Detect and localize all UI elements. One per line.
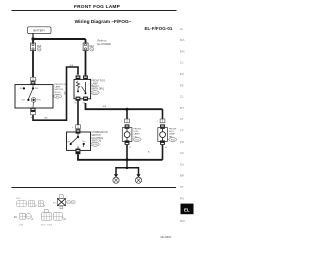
svg-text:COMBINATION: COMBINATION	[92, 131, 108, 134]
wire lamp feed down RH	[162, 109, 164, 119]
svg-text:2: 2	[157, 121, 158, 123]
svg-text:FOG: FOG	[134, 131, 139, 133]
svg-text:E50: E50	[72, 202, 75, 204]
svg-text:E107 , E108: E107 , E108	[41, 225, 53, 227]
svg-text:G/R: G/R	[70, 65, 74, 67]
svg-text:AX: AX	[180, 151, 184, 155]
svg-text:FRONT FOG: FRONT FOG	[54, 84, 67, 86]
legend ground bolt cluster	[53, 195, 75, 209]
svg-text:IDX: IDX	[180, 219, 185, 223]
wire bus drop to fuse F1	[32, 39, 34, 44]
node battery feed junction	[32, 38, 35, 41]
ground E50	[135, 174, 141, 183]
svg-text:LAMP: LAMP	[134, 133, 140, 136]
wire box A to lighting switch	[77, 101, 79, 125]
wire relay out down-right-up to switch feed	[33, 67, 78, 120]
connector under relay	[30, 108, 35, 119]
wire ground bus	[77, 159, 162, 161]
svg-text:E21: E21	[67, 202, 70, 204]
svg-text:G/B: G/B	[103, 106, 107, 108]
wire lamp feed down LH	[126, 109, 128, 119]
battery B1	[28, 27, 52, 34]
wire battery to feed bus	[32, 33, 34, 39]
svg-text:RS: RS	[180, 196, 184, 200]
wire lighting switch to ground bus	[77, 154, 79, 160]
svg-text:EL: EL	[184, 208, 190, 213]
svg-text:LAMP: LAMP	[92, 82, 99, 85]
switch unit box A terminals bottom	[74, 97, 88, 105]
svg-text:14: 14	[76, 74, 78, 76]
svg-text:FE: FE	[180, 83, 184, 87]
svg-text:Refer to: Refer to	[98, 39, 108, 42]
label front fog lamp switch	[91, 81, 105, 95]
svg-text:RELAY: RELAY	[92, 85, 100, 88]
lighting switch bottom cap	[76, 149, 81, 155]
legend connector E110	[38, 201, 45, 207]
svg-text:SWITCH: SWITCH	[92, 135, 101, 137]
label lighting switch	[91, 131, 108, 146]
legend connector E108	[28, 200, 36, 207]
svg-text:SU: SU	[180, 162, 184, 166]
svg-text:EC: EC	[180, 72, 185, 76]
node lamp feed junction	[126, 108, 129, 111]
header rule	[12, 10, 177, 12]
svg-text:2: 2	[121, 121, 122, 123]
connector on left wire	[31, 77, 38, 85]
connector on lighting switch wire	[72, 125, 80, 134]
footer separator	[12, 187, 177, 189]
legend row2 grid connector b	[41, 213, 66, 227]
svg-text:1: 1	[84, 74, 85, 76]
lighting switch box B	[67, 132, 91, 150]
svg-text:FRONT: FRONT	[134, 128, 142, 130]
svg-text:E108: E108	[93, 144, 99, 146]
svg-text:BR: BR	[180, 174, 185, 178]
svg-text:FOG: FOG	[169, 131, 174, 133]
svg-text:MT: MT	[180, 106, 185, 110]
legend connector E33	[16, 198, 26, 207]
connector lamp RH	[157, 119, 165, 123]
svg-text:OFF: OFF	[67, 142, 70, 144]
wire box A to lamp feed bus	[86, 103, 163, 109]
label front fog lamp RH	[169, 128, 177, 141]
svg-text:(LIGHTING: (LIGHTING	[92, 138, 104, 140]
svg-text:LAMP: LAMP	[54, 86, 60, 89]
svg-text:EL-POWER.: EL-POWER.	[98, 43, 112, 46]
front fog lamp LH	[122, 124, 132, 144]
svg-text:EM: EM	[180, 49, 185, 53]
front fog lamp RH	[158, 124, 168, 144]
note refer to EL-POWER	[98, 39, 112, 46]
svg-text:AT: AT	[180, 117, 184, 121]
fuse F2 15A	[83, 43, 94, 51]
legend row2 connector E63	[14, 213, 33, 226]
section tab EL highlighted	[181, 204, 194, 215]
wire lamp LH to ground bus	[126, 145, 128, 160]
svg-text:FRONT FOG LAMP: FRONT FOG LAMP	[74, 4, 121, 10]
svg-text:(FOG): (FOG)	[54, 92, 60, 94]
svg-text:BATTERY: BATTERY	[33, 29, 45, 33]
svg-text:EL-F/FOG-01: EL-F/FOG-01	[144, 26, 172, 31]
wire lamp RH to ground bus	[162, 145, 164, 160]
svg-text:GI: GI	[180, 27, 183, 31]
svg-text:FRONT: FRONT	[169, 128, 177, 130]
node ground junction	[126, 158, 129, 161]
svg-text:OFF: OFF	[19, 88, 22, 90]
wire ground branch bar	[116, 168, 139, 175]
svg-text:Wiring Diagram –F/FOG–: Wiring Diagram –F/FOG–	[75, 19, 132, 25]
fuse F1 10A	[31, 43, 42, 51]
legend row2 grid connector a	[41, 210, 51, 221]
wire fuse F1 down	[32, 51, 34, 79]
svg-text:1: 1	[36, 79, 37, 81]
svg-text:6: 6	[72, 127, 73, 129]
switch unit box A	[74, 79, 91, 98]
wire bus drop to fuse F2	[85, 39, 87, 44]
connector lamp LH	[121, 119, 129, 123]
svg-text:FRONT FOG: FRONT FOG	[92, 81, 106, 83]
svg-text:CL: CL	[180, 95, 184, 99]
svg-text:AEL888A: AEL888A	[160, 235, 172, 239]
switch unit box A terminals top	[76, 74, 88, 80]
label front fog lamp LH	[133, 128, 141, 141]
svg-text:SWITCH: SWITCH	[54, 89, 63, 91]
svg-text:TF: TF	[180, 129, 184, 133]
svg-text:PD: PD	[180, 140, 185, 144]
wire battery feed bus	[33, 38, 86, 40]
node ground branch junction	[126, 167, 129, 170]
svg-text:(WITH DRL): (WITH DRL)	[92, 89, 105, 91]
wire fuse F2 down	[85, 51, 87, 76]
svg-text:LAMP: LAMP	[169, 133, 175, 136]
ground E21	[113, 174, 119, 183]
wire ground drop	[126, 160, 128, 167]
svg-text:LOW: LOW	[21, 100, 25, 102]
label front fog lamp switch left	[54, 84, 68, 98]
front fog lamp switch box	[15, 85, 53, 108]
svg-text:ST: ST	[180, 185, 184, 189]
